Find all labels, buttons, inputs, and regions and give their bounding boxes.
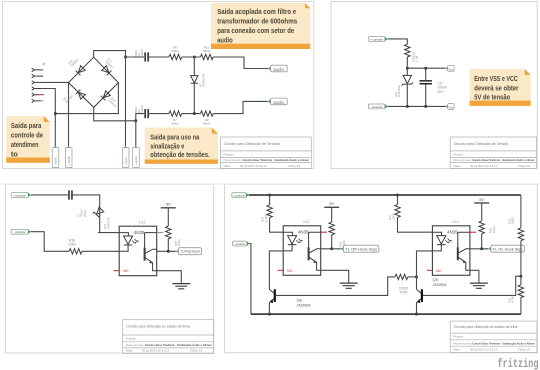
svg-text:- controle: - controle bbox=[234, 242, 246, 246]
svg-text:56kΩ: 56kΩ bbox=[171, 121, 179, 125]
svg-text:POM: POM bbox=[400, 291, 408, 295]
NC stub red bbox=[278, 269, 284, 271]
wire zener to opto pin1 bbox=[98, 232, 119, 234]
panel sheet 4 (bottom-right) bbox=[225, 184, 538, 352]
wire opto U11 pin2 down to Q6 collector bbox=[269, 251, 283, 289]
net flag + controle bbox=[11, 193, 31, 198]
wire rail A down to hook flag 1 bbox=[54, 114, 56, 146]
svg-text:Gancho Base Telefonia - Sinali: Gancho Base Telefonia - Sinalização,Áudi… bbox=[472, 340, 535, 345]
diode D9 (bottom-left arm) bbox=[62, 90, 86, 104]
svg-text:33kΩ: 33kΩ bbox=[391, 213, 395, 220]
svg-text:fritzing: fritzing bbox=[498, 357, 539, 370]
wire C3 to R7 bbox=[149, 113, 169, 115]
node junction Q6 emitter / rail bbox=[268, 313, 271, 316]
svg-text:Circuito para Obtenção de Tens: Circuito para Obtenção de Tensão bbox=[454, 142, 508, 146]
net flag - hook (vertical) bbox=[52, 146, 59, 168]
wire opto pin5 to junction and flag bbox=[157, 250, 176, 252]
wire bridge bottom vertex to rail B bbox=[94, 107, 136, 120]
diode D11 (top-right arm) bbox=[102, 57, 115, 75]
wire rail B down to contr flag 2 bbox=[135, 121, 137, 146]
wire resistor to junction bbox=[408, 276, 417, 278]
wire R8 to junction bbox=[182, 56, 201, 58]
diode D10 (bottom-right arm) bbox=[101, 91, 118, 109]
NC stub red bbox=[427, 269, 433, 271]
svg-text:sinalização e: sinalização e bbox=[150, 142, 184, 150]
svg-text:100nF: 100nF bbox=[140, 105, 144, 113]
svg-text:30 jul 2014 22:41:12: 30 jul 2014 22:41:12 bbox=[470, 348, 498, 352]
resistor R35 (vertical) bbox=[166, 226, 182, 246]
svg-text:audio: audio bbox=[217, 37, 233, 45]
svg-text:U10: U10 bbox=[452, 220, 459, 224]
wire 5V to R28 bbox=[481, 203, 483, 221]
svg-text:transformador de 600ohms: transformador de 600ohms bbox=[217, 18, 297, 26]
svg-text:TL Off-Hook Sign: TL Off-Hook Sign bbox=[345, 247, 377, 251]
svg-text:30 jul 2014 22:41:12: 30 jul 2014 22:41:12 bbox=[240, 164, 268, 168]
resistor R8 bbox=[169, 46, 182, 60]
svg-text:- controle: - controle bbox=[370, 105, 382, 109]
svg-text:Saída para uso na: Saída para uso na bbox=[150, 134, 199, 142]
bottom rail wire bbox=[251, 313, 521, 315]
wire R7 to junction bbox=[182, 113, 201, 115]
bottom rail - controle to Vss bbox=[388, 105, 446, 107]
net flag - controle bbox=[233, 241, 250, 246]
net flag audio (top) bbox=[268, 65, 287, 72]
zener diode D13 bbox=[394, 68, 413, 106]
svg-text:10kΩ: 10kΩ bbox=[68, 243, 76, 247]
wire U10 pin2 down to Q5 collector bbox=[417, 251, 433, 289]
svg-text:Saída para: Saída para bbox=[11, 122, 42, 130]
wire + controle to resistor bbox=[388, 39, 408, 44]
svg-text:Data: Data bbox=[453, 164, 460, 168]
svg-text:to: to bbox=[11, 151, 19, 159]
net flag audio (bottom) bbox=[268, 98, 287, 105]
wire C4 to R8 bbox=[149, 56, 169, 58]
svg-text:Circuito para Obtenção do esta: Circuito para Obtenção do estado de linh… bbox=[126, 325, 190, 329]
svg-text:2N3904: 2N3904 bbox=[297, 303, 312, 308]
svg-text:5V de tensão: 5V de tensão bbox=[474, 94, 510, 102]
bridge rectifier diamond bbox=[69, 57, 119, 107]
wire U10 pin5 to junction / flag bbox=[470, 248, 489, 250]
node junction R28 / pin5 bbox=[480, 248, 483, 251]
svg-text:1.1M: 1.1M bbox=[415, 55, 419, 62]
net flag + controle bbox=[369, 37, 388, 42]
pin6 stub red bbox=[470, 231, 476, 233]
node junction zener bottom bbox=[406, 105, 409, 108]
svg-text:56kΩ: 56kΩ bbox=[203, 121, 211, 125]
svg-text:obtenção de tensões.: obtenção de tensões. bbox=[150, 151, 209, 159]
diode D12 (top-left arm) bbox=[67, 58, 85, 76]
wire junction to C6 and Vcc bbox=[407, 67, 446, 69]
net flag TL Off-Hook Sign bbox=[341, 245, 379, 252]
svg-text:Nome do arq:: Nome do arq: bbox=[126, 343, 144, 347]
resistor R7 bbox=[169, 111, 182, 125]
svg-text:para conexão com setor de: para conexão com setor de bbox=[217, 27, 294, 35]
capacitor C6 bbox=[420, 68, 448, 106]
svg-text:U11: U11 bbox=[303, 220, 309, 224]
node junction zener top bbox=[406, 67, 409, 70]
svg-text:Folha 1/1: Folha 1/1 bbox=[518, 164, 531, 168]
resistor R10 bbox=[200, 46, 213, 60]
resistor DXD2 POM bbox=[395, 274, 408, 294]
node junction rail B / contr flag 2 bbox=[135, 120, 138, 123]
svg-text:Circuito para Obtenção de Tens: Circuito para Obtenção de Tensões bbox=[224, 142, 280, 146]
ground (left) bbox=[340, 283, 358, 288]
svg-text:- controle: - controle bbox=[13, 230, 25, 234]
svg-text:Projeto:: Projeto: bbox=[126, 337, 137, 341]
net flag + contr (vertical) bbox=[133, 146, 140, 168]
svg-text:30 jul 2014 22:41:12: 30 jul 2014 22:41:12 bbox=[142, 349, 170, 353]
panel sheet 2 (top-right) bbox=[331, 2, 537, 169]
node junction R33 / R31 / Q5 base bbox=[520, 275, 523, 278]
wire bridge left vertex down to hook flag 2 bbox=[68, 83, 70, 146]
pin6 stub red bbox=[321, 231, 327, 233]
svg-text:TL On-Hook Sign: TL On-Hook Sign bbox=[493, 247, 523, 251]
svg-text:+ contr: + contr bbox=[134, 157, 138, 166]
svg-text:Nome do arq:: Nome do arq: bbox=[224, 158, 242, 162]
wire Q5 base to R33/R31 junction bbox=[423, 276, 521, 295]
node junction Q5 collector / U10 pin2 / DXD2 bbox=[415, 276, 418, 279]
resistor R28 (vertical) bbox=[479, 221, 496, 234]
svg-text:Entre VSS e VCC: Entre VSS e VCC bbox=[474, 75, 518, 83]
title block sheet 3 bbox=[123, 320, 214, 354]
capacitor C7 bbox=[68, 190, 87, 217]
svg-text:Projeto:: Projeto: bbox=[453, 152, 464, 156]
svg-text:56kΩ: 56kΩ bbox=[171, 49, 179, 53]
wire R10 to audio flag (top) bbox=[213, 57, 268, 69]
wire R28 to junction bbox=[481, 234, 483, 249]
wire R36 to opto pin2 bbox=[82, 250, 119, 252]
svg-text:Folha 1/1: Folha 1/1 bbox=[518, 348, 531, 352]
net flag TL On-Hook Sign bbox=[488, 245, 524, 252]
svg-text:- hook: - hook bbox=[54, 157, 58, 166]
top rail wire bbox=[249, 194, 521, 196]
svg-text:Gancho Base Telefonia - Sinali: Gancho Base Telefonia - Sinalização,Áudi… bbox=[243, 157, 310, 162]
net flag + controle bbox=[232, 193, 249, 198]
node junction rail A / pin4 bbox=[54, 112, 57, 115]
note: Saida acoplada com filtro bbox=[211, 3, 310, 49]
svg-text:Folha 1/1: Folha 1/1 bbox=[288, 164, 301, 168]
resistor R33 (vertical, top right) bbox=[508, 195, 524, 276]
svg-text:2N3904: 2N3904 bbox=[433, 282, 448, 287]
wire pin4 down to rail A bbox=[43, 89, 55, 114]
svg-text:4.7kΩ: 4.7kΩ bbox=[511, 296, 515, 303]
connector J6 bbox=[32, 62, 46, 102]
wire U11 pin5 to junction / flag bbox=[321, 248, 341, 250]
node junction C6 top bbox=[424, 67, 427, 70]
svg-text:Gancho Base Telefonia - Sinali: Gancho Base Telefonia - Sinalização,Áudi… bbox=[472, 157, 534, 162]
title block sheet 2 bbox=[450, 137, 536, 168]
svg-text:+ controle: + controle bbox=[233, 194, 246, 198]
resistor R31 (vertical, bottom right) bbox=[508, 276, 524, 314]
wire 5V to R35 bbox=[167, 208, 169, 226]
panel sheet 3 (bottom-left) bbox=[6, 184, 214, 353]
svg-text:TL Ring Signal: TL Ring Signal bbox=[180, 250, 200, 254]
wire resistor to junction bbox=[406, 57, 408, 68]
svg-text:3.3kΩ: 3.3kΩ bbox=[264, 215, 268, 222]
wire bridge top vertex over to C4 row bbox=[94, 51, 126, 58]
svg-text:56kΩ: 56kΩ bbox=[203, 49, 211, 53]
svg-text:Projeto:: Projeto: bbox=[453, 335, 464, 339]
svg-text:50V: 50V bbox=[438, 90, 445, 94]
panel sheet 1 (top-left) bbox=[2, 2, 313, 169]
ground (right) bbox=[470, 283, 488, 288]
svg-text:500V: 500V bbox=[134, 106, 138, 113]
note: Saida para controle de atendimento bbox=[6, 116, 50, 163]
net flag - controle bbox=[11, 229, 31, 234]
svg-text:30 jul 2014 22:41:12: 30 jul 2014 22:41:12 bbox=[470, 164, 498, 168]
svg-text:250V: 250V bbox=[83, 210, 87, 217]
svg-text:deverá se obter: deverá se obter bbox=[474, 84, 518, 92]
NC stub red bbox=[114, 270, 120, 272]
svg-text:10kΩ: 10kΩ bbox=[177, 239, 181, 246]
wire R29 to junction bbox=[331, 235, 333, 249]
node junction C6 bottom bbox=[424, 105, 427, 108]
wire - controle down to bottom rail bbox=[249, 244, 251, 315]
capacitor C4 bbox=[134, 48, 149, 62]
svg-text:controle de: controle de bbox=[11, 132, 43, 140]
svg-text:+ controle: + controle bbox=[13, 193, 26, 197]
note: Entre VSS e VCC bbox=[470, 69, 531, 106]
net flag Vss bbox=[446, 104, 454, 110]
wire 5V to R29 bbox=[331, 207, 333, 222]
svg-text:Folha 1/1: Folha 1/1 bbox=[190, 349, 203, 353]
node junction top row / contr flag 1 bbox=[124, 56, 127, 59]
svg-text:audio: audio bbox=[273, 100, 284, 105]
svg-text:Circuito para Obtenção do esta: Circuito para Obtenção do estado da linh… bbox=[454, 325, 518, 329]
node junction R35 / pin5 / flag bbox=[167, 250, 170, 253]
svg-text:atendimen: atendimen bbox=[11, 141, 39, 149]
svg-text:Vss: Vss bbox=[449, 106, 455, 110]
svg-text:1N4732A: 1N4732A bbox=[106, 217, 110, 229]
resistor R9 bbox=[200, 111, 213, 125]
wire C7 to corner bbox=[73, 195, 100, 233]
wire R9 to audio flag (bottom) bbox=[213, 101, 268, 113]
title block sheet 4 bbox=[450, 321, 537, 353]
svg-text:500V: 500V bbox=[134, 50, 138, 57]
transistor Q5 bbox=[417, 277, 448, 314]
svg-text:J6: J6 bbox=[42, 62, 46, 66]
svg-text:+ controle: + controle bbox=[370, 37, 383, 41]
svg-text:Data: Data bbox=[224, 164, 231, 168]
net flag Vcc bbox=[446, 65, 454, 71]
wire U11 pin4 to ground bbox=[321, 270, 349, 282]
svg-text:Saída acoplada com filtro e: Saída acoplada com filtro e bbox=[217, 8, 296, 16]
svg-text:Gancho Base Telefonia - Sinali: Gancho Base Telefonia - Sinalização,Áudi… bbox=[145, 342, 212, 347]
title block sheet 1 bbox=[220, 137, 311, 168]
svg-text:1N4736A: 1N4736A bbox=[397, 85, 401, 97]
net flag TL Ring Signal bbox=[176, 248, 202, 255]
node junction R30 top bbox=[396, 194, 399, 197]
wire rail B up to C3 row bbox=[136, 114, 144, 121]
node junction R29 / pin5 bbox=[330, 248, 333, 251]
svg-text:Data: Data bbox=[126, 349, 133, 353]
svg-text:audio: audio bbox=[273, 67, 284, 72]
zener diode D15 (diagonal) bbox=[93, 207, 111, 229]
svg-text:56kΩ: 56kΩ bbox=[511, 217, 515, 224]
resistor R32 (vertical) bbox=[261, 195, 284, 232]
wire + controle to C7 bbox=[31, 194, 68, 196]
5V power flag (right) bbox=[474, 198, 489, 203]
wire Q6 base to resistor DXD2 bbox=[276, 277, 395, 296]
pin6 stub (gray) bbox=[157, 232, 164, 234]
transistor Q6 bbox=[269, 289, 311, 314]
svg-text:U12: U12 bbox=[139, 221, 146, 225]
resistor R29 (vertical) bbox=[329, 222, 346, 247]
svg-text:100nF: 100nF bbox=[140, 48, 144, 56]
resistor R36 bbox=[68, 239, 82, 254]
separator line between rows bbox=[0, 183, 540, 185]
net flag - controle bbox=[369, 104, 388, 109]
varistor D7 bbox=[191, 57, 206, 114]
capacitor C3 bbox=[134, 105, 149, 119]
svg-text:Projeto:: Projeto: bbox=[224, 152, 235, 156]
svg-text:+ hook: + hook bbox=[67, 156, 71, 166]
5V power flag (left) bbox=[324, 202, 339, 207]
svg-text:Nome do arq:: Nome do arq: bbox=[453, 158, 471, 162]
svg-text:V14K175A: V14K175A bbox=[202, 73, 206, 87]
5V power flag bbox=[161, 203, 176, 208]
node junction R32 top bbox=[268, 194, 271, 197]
wire - controle to R36 bbox=[31, 232, 69, 252]
net flag + hook (vertical) bbox=[65, 146, 72, 168]
wire R35 to junction bbox=[167, 239, 169, 251]
node junction Q5 emitter / rail bbox=[415, 313, 418, 316]
resistor R30 (vertical) bbox=[388, 195, 432, 232]
wire down to contr flag 1 bbox=[125, 57, 127, 146]
svg-text:- contr: - contr bbox=[124, 157, 128, 166]
svg-text:Vcc: Vcc bbox=[449, 67, 455, 71]
resistor CR0002 1.1M (vertical) bbox=[405, 44, 419, 62]
node junction D7 bottom bbox=[193, 112, 196, 115]
ground bbox=[172, 284, 190, 289]
svg-text:Data: Data bbox=[453, 348, 460, 352]
net flag - contr (vertical) bbox=[122, 146, 129, 168]
wire pin3 to bridge left vertex bbox=[43, 81, 68, 83]
svg-text:10kΩ: 10kΩ bbox=[492, 226, 496, 233]
node junction D7 top bbox=[193, 56, 196, 59]
wire opto pin4 emitter to ground bbox=[157, 271, 182, 284]
rail A to bridge right vertex bbox=[55, 83, 118, 114]
note: Saida para uso na sinalizacao bbox=[145, 128, 218, 164]
svg-text:Nome do arq:: Nome do arq: bbox=[453, 341, 471, 345]
wire top row to C4 bbox=[126, 56, 145, 58]
wire U10 pin4 to ground bbox=[470, 270, 479, 282]
